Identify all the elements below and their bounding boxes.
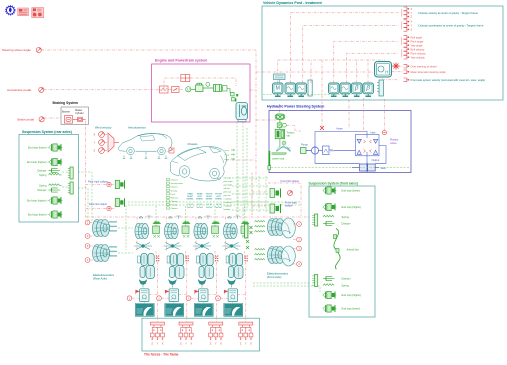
wire riser stub 3 [208, 294, 216, 296]
svg-text:Rear left caliper: Rear left caliper [89, 202, 107, 206]
component tire force tree 4 [239, 322, 253, 340]
wire caliper bus horizontal [86, 216, 310, 218]
component tire force tree 3 [209, 322, 223, 340]
svg-text:Spring: Spring [342, 284, 350, 288]
wire vd front-axle route [383, 79, 399, 81]
wire riser top stub 4 [245, 251, 246, 258]
box tire forces [142, 318, 260, 351]
component road input 4 [228, 289, 237, 302]
svg-text:Chassis: Chassis [171, 180, 178, 182]
svg-text:M: M [276, 85, 280, 91]
vd port group bus bars [401, 9, 403, 17]
wire vd L-route 2 [303, 26, 399, 61]
svg-text:Chassis: Chassis [171, 201, 178, 203]
wire road link 1 [132, 297, 140, 299]
scope icons row vehicle dynamics [273, 83, 284, 97]
svg-text:Y: Y [185, 341, 187, 345]
svg-text:Over steering of wheel: Over steering of wheel [411, 64, 437, 68]
chassis output table left column [167, 179, 170, 181]
component rack bottom connector [268, 166, 271, 170]
box engine powertrain [152, 64, 251, 122]
component shaft block [222, 86, 228, 92]
wire front caliper frame top [268, 183, 301, 216]
component elastokinematics rear top [93, 220, 111, 237]
component road input 1 [140, 289, 149, 302]
component elastokinematics front bottom [268, 247, 286, 264]
svg-text:Damper: Damper [342, 222, 351, 226]
box vehicle dynamics post [262, 6, 503, 100]
svg-text:Cylinder: Cylinder [75, 112, 84, 115]
wire pump to bridge [334, 149, 356, 151]
wire vd L-route 4 [347, 53, 399, 60]
svg-text:WHEEL: WHEEL [215, 199, 223, 201]
svg-text:Gravity: Gravity [171, 189, 177, 192]
icon red-pattern [32, 8, 44, 18]
svg-text:X: X [94, 133, 96, 137]
wire caliper feed left [86, 208, 107, 210]
svg-text:bar: bar [287, 134, 291, 137]
wire vd to oversteer [392, 65, 403, 67]
svg-text:Chassis: Chassis [171, 208, 178, 210]
component engine block [191, 83, 203, 91]
svg-text:x velocity: x velocity [224, 198, 232, 201]
svg-text:cm z: cm z [225, 159, 230, 161]
wire green wheels top2 [128, 204, 300, 206]
component wheel assembly 2 [169, 216, 181, 219]
svg-text:power rack: power rack [272, 157, 284, 160]
component rear fan connector 2 [68, 182, 73, 194]
svg-text:Output: Output [372, 158, 380, 162]
port front axle system [404, 78, 410, 82]
component jack [352, 163, 379, 173]
svg-text:1/3 1/2: 1/3 1/2 [187, 204, 193, 206]
svg-text:pitch angle: pitch angle [224, 180, 233, 183]
svg-text:End stop (higher): End stop (higher) [342, 293, 362, 297]
icon red star [393, 63, 400, 70]
svg-text:End stop (higher): End stop (higher) [342, 205, 362, 209]
svg-text:Aerodynamics: Aerodynamics [128, 126, 146, 130]
svg-text:Vehicle Dynamics Post - treatm: Vehicle Dynamics Post - treatment [263, 1, 323, 5]
wire front caliper route2 [252, 205, 268, 207]
component engine ecu [160, 86, 169, 93]
component power rack [269, 151, 286, 170]
component hyd steering input [275, 114, 285, 123]
component tire force tree 2 [179, 322, 193, 340]
component front fan connector 2 [312, 275, 317, 287]
component rack crossing [276, 146, 291, 152]
component pressure valve [319, 146, 334, 155]
wire green engine down2 [242, 122, 244, 224]
wire riser top stub 1 [156, 251, 157, 258]
box braking system [61, 107, 89, 125]
svg-text:Roll angle: Roll angle [411, 35, 423, 39]
wire hyd green bottom [271, 167, 410, 169]
component engine green connector [235, 94, 238, 102]
component wheel assembly 1 [139, 216, 151, 219]
svg-text:Chassis: Chassis [188, 142, 199, 146]
component road input 3 [199, 289, 208, 302]
svg-text:WHEEL: WHEEL [187, 199, 195, 201]
wire accelerator dash-dot [44, 89, 159, 91]
svg-text:Cx(body velocity at center of: Cx(body velocity at center of gravity - … [418, 11, 478, 15]
wire riser stub 2 [179, 294, 187, 296]
component elastokinematics front top [268, 219, 286, 236]
wire wheel red riser 3 [215, 256, 217, 322]
wire vd feed from chassis [226, 159, 256, 161]
svg-text:caliper: caliper [285, 204, 293, 208]
wire vd L-route 1 [290, 13, 398, 60]
ports elastokinematics front [297, 222, 302, 227]
svg-text:Hose: Hose [337, 127, 344, 131]
svg-text:End stop (lower): End stop (lower) [28, 213, 47, 217]
wire rr caliper link [111, 184, 115, 186]
svg-text:REAR: REAR [187, 193, 193, 196]
svg-text:1/3 1/2: 1/3 1/2 [197, 204, 203, 206]
svg-text:X: X [250, 341, 252, 345]
component vd multiplexer 1 [308, 80, 312, 96]
svg-text:Y: Y [411, 11, 413, 15]
svg-text:yaw rate: yaw rate [224, 194, 231, 197]
component booster [64, 116, 77, 123]
wire green engine down [236, 122, 238, 218]
component rear fan connector 1 [68, 167, 73, 179]
wire hyd to caliper frame [251, 173, 253, 184]
wire green to front susp [253, 282, 309, 284]
svg-text:Brake pedal: Brake pedal [18, 117, 35, 121]
wire master-cyl down [85, 121, 87, 217]
wire front caliper route [252, 191, 268, 193]
svg-text:roll angle: roll angle [224, 177, 232, 180]
component U source [186, 87, 191, 92]
wire green elasto rear vertical [125, 205, 127, 250]
svg-text:Damper: Damper [342, 277, 351, 281]
svg-text:Antiroll bar: Antiroll bar [347, 248, 359, 252]
svg-text:Jack: Jack [381, 166, 387, 170]
green vertical feeds to wheel columns [155, 206, 157, 221]
svg-text:End stop (lower): End stop (lower) [342, 307, 361, 311]
svg-text:Front left caliper: Front left caliper [281, 179, 300, 183]
svg-text:X: X [162, 341, 164, 345]
component wind funnel [108, 133, 119, 152]
port steering wheel angle [36, 47, 41, 52]
wire rear susp internal [62, 171, 68, 173]
svg-text:Gravity: Gravity [171, 203, 177, 206]
wire hyd red markx [320, 126, 324, 130]
component elastokinematics rear bottom [93, 245, 111, 262]
elastokinematics front springs [255, 221, 265, 223]
icon red-table [18, 8, 29, 16]
svg-text:End stop (lower): End stop (lower) [28, 146, 47, 150]
svg-text:End stop (higher): End stop (higher) [27, 160, 47, 164]
svg-text:Roll rate: Roll rate [171, 196, 179, 199]
svg-text:Suspension System (front axles: Suspension System (front axles) [309, 182, 358, 186]
svg-text:(Front Axle): (Front Axle) [267, 275, 282, 279]
component engine map [181, 75, 190, 82]
svg-text:heading: heading [224, 209, 231, 211]
green signal grid right of chassis [232, 177, 268, 179]
svg-text:Booster: Booster [62, 110, 70, 113]
component pump green input [301, 148, 307, 154]
port front left caliper [287, 190, 292, 195]
wire steering to hydraulic [256, 119, 277, 121]
wire road link 4 [220, 297, 228, 299]
svg-text:X: X [411, 7, 413, 11]
wire wheel red riser 2 [186, 256, 188, 322]
wire steering-wheel-angle dash-dot [42, 50, 257, 183]
svg-text:Damper: Damper [37, 169, 46, 173]
wire green rear susp out2 [78, 188, 88, 221]
port rear left caliper [107, 206, 111, 210]
component pump circle [306, 147, 319, 154]
component torsion bar [275, 128, 284, 139]
sketch aerodynamics car [119, 133, 172, 154]
svg-text:β: β [354, 85, 359, 92]
svg-text:1/3 1/2: 1/3 1/2 [206, 204, 212, 206]
port rear right caliper [107, 182, 111, 186]
svg-text:Pitch: Pitch [171, 193, 175, 196]
port road 3 [186, 296, 191, 301]
component elasto front connector [245, 224, 253, 249]
component road input 2 [169, 289, 178, 302]
svg-text:Hydraulic Power Steering Syste: Hydraulic Power Steering System [267, 105, 324, 109]
wire green to front susp2 [253, 286, 320, 292]
svg-text:Yaw angle: Yaw angle [411, 43, 423, 47]
svg-text:Y: Y [157, 341, 159, 345]
aerodynamics under-marks [123, 156, 126, 159]
wire engine internal dash2 [190, 78, 236, 86]
box suspension rear [19, 135, 79, 223]
wire front caliper frame [251, 183, 253, 216]
svg-text:X: X [220, 341, 222, 345]
component hyd square-circle pair [277, 123, 286, 128]
svg-text:roll rate: roll rate [224, 187, 230, 190]
wire riser top stub 2 [186, 251, 187, 258]
svg-text:Cx(body acceleration at center: Cx(body acceleration at center of gravit… [418, 24, 484, 28]
component vd multiplexer 2 [377, 80, 383, 96]
wire caliper feed right [86, 184, 107, 186]
component hyd circle2 [280, 139, 286, 146]
svg-text:Mean kinematic steering angle: Mean kinematic steering angle [411, 70, 447, 74]
component inlet minus [382, 131, 386, 135]
wire engine internal dash [159, 78, 180, 90]
port road 1 [127, 296, 132, 301]
wire vd horizontal 11 [256, 71, 374, 73]
svg-text:Front axle system velocity (co: Front axle system velocity (corrected wi… [411, 78, 486, 82]
component front left caliper [270, 189, 281, 198]
wire engine exit right [250, 89, 256, 91]
svg-text:β: β [365, 85, 370, 92]
wire hyd red top3 [363, 98, 365, 130]
wire bridge to jack [366, 156, 368, 164]
wire steering hyd stub [279, 104, 281, 113]
port accelerator pedal [39, 87, 44, 92]
wire vd green baseline [263, 94, 352, 96]
svg-text:WHEEL: WHEEL [206, 199, 214, 201]
wire wheel red riser 4 [245, 256, 247, 322]
wire bridge right return [375, 146, 386, 164]
svg-text:Engine and Powertrain system: Engine and Powertrain system [155, 59, 207, 63]
component gearbox [203, 85, 222, 92]
svg-text:valve: valve [390, 141, 397, 145]
component differential [236, 103, 248, 122]
component master cylinder [78, 117, 86, 121]
port road 2 [157, 296, 162, 301]
svg-text:Damper: Damper [37, 188, 46, 192]
component rear right caliper [115, 180, 124, 188]
vd riser lines from scopes to bus [277, 60, 279, 83]
svg-text:pitch rate: pitch rate [224, 191, 232, 194]
wire elasto rear link2 [118, 252, 133, 254]
svg-text:Y: Y [245, 341, 247, 345]
port brake pedal [39, 117, 44, 122]
svg-text:Braking System: Braking System [53, 101, 79, 105]
box suspension front [309, 186, 375, 317]
wire wheel red riser 1 [156, 256, 158, 322]
port road 4 [216, 296, 221, 301]
svg-text:WHEEL: WHEEL [196, 199, 204, 201]
elastokinematics front knuckle lobes [282, 218, 296, 266]
svg-text:Pump: Pump [301, 143, 308, 147]
svg-text:Y: Y [215, 341, 217, 345]
wire rear susp internal2 [62, 186, 68, 188]
component front right caliper [270, 204, 281, 213]
wire vd to meankin [392, 71, 403, 73]
svg-text:End stop (higher): End stop (higher) [27, 199, 47, 203]
wire elasto rear link [118, 227, 133, 229]
wire hyd red inlet drop [383, 99, 385, 130]
component steering scope [375, 62, 392, 78]
box hydraulic power steering [269, 111, 411, 173]
component wheel assembly 3 [198, 216, 210, 219]
wire green chassis right [246, 128, 248, 210]
icon bridge red arrows [364, 140, 372, 153]
wire brake pedal to booster [44, 117, 61, 119]
svg-text:Yaw velocity: Yaw velocity [411, 55, 426, 59]
svg-text:Pitch velocity: Pitch velocity [411, 51, 427, 55]
svg-text:Wind velocity: Wind velocity [95, 126, 112, 130]
svg-text:y velocity: y velocity [224, 201, 232, 204]
component clutch circle [206, 82, 210, 86]
component aero sensor [169, 148, 174, 153]
wire pump return [315, 154, 360, 163]
component wheel assembly 4 [228, 216, 240, 219]
icon water-drop [6, 6, 16, 16]
wire hyd red top2 [348, 100, 350, 128]
output ports column vehicle dynamics [404, 7, 410, 11]
svg-text:Y: Y [411, 24, 413, 28]
wire hose line [315, 132, 367, 147]
wire road link 2 [161, 297, 169, 299]
svg-text:Gravity center: Gravity center [171, 182, 184, 185]
wire hyd sq to red [286, 125, 302, 131]
wire vd bus horizontal [278, 59, 385, 61]
component front fan connector 1 [312, 214, 317, 226]
wire engine internal dash3 [169, 89, 185, 91]
wire green rear susp out [78, 172, 92, 221]
wire vd L-route 3 [334, 41, 399, 60]
svg-text:(Rear Axle): (Rear Axle) [93, 277, 107, 281]
svg-text:Inlet: Inlet [371, 130, 376, 134]
wire riser stub 4 [238, 294, 246, 296]
ports elastokinematics rear [85, 220, 90, 225]
wire engine to differential [227, 89, 235, 101]
wire rl caliper link [111, 204, 115, 209]
svg-text:Roll velocity: Roll velocity [411, 47, 426, 51]
svg-text:Y: Y [94, 141, 96, 145]
svg-text:End stop (lower): End stop (lower) [342, 189, 361, 193]
component tire force tree 1 [150, 322, 164, 340]
svg-text:Spring: Spring [39, 184, 47, 188]
svg-text:z velocity: z velocity [224, 205, 232, 208]
svg-text:Spring: Spring [342, 215, 350, 219]
svg-text:Suspension System (rear axles): Suspension System (rear axles) [22, 130, 72, 134]
component engine throttle [172, 87, 180, 93]
svg-text:Accelerator pedal: Accelerator pedal [7, 88, 31, 92]
svg-text:1/3 1/2: 1/3 1/2 [216, 204, 222, 206]
svg-text:Master: Master [75, 109, 82, 112]
sketch chassis car [170, 147, 226, 182]
svg-text:Tire forces - Tire frame: Tire forces - Tire frame [144, 353, 179, 357]
svg-text:Steering wheel angle: Steering wheel angle [2, 48, 31, 52]
component rear left caliper [115, 198, 124, 206]
svg-text:REAR: REAR [197, 193, 203, 196]
wire hyd red top [321, 60, 323, 128]
svg-text:X: X [411, 20, 413, 24]
component steering display [274, 74, 286, 83]
component antiroll bar [334, 229, 341, 270]
svg-text:Pitch angle: Pitch angle [411, 39, 424, 43]
svg-text:Chassis: Chassis [171, 187, 178, 189]
wire road link 3 [191, 297, 199, 299]
component rotary valve bridge [355, 135, 379, 156]
svg-text:yaw angle: yaw angle [224, 185, 233, 187]
wire riser stub 1 [149, 294, 157, 296]
svg-text:Spring: Spring [39, 173, 47, 177]
wire green wheels top [128, 201, 300, 203]
svg-text:Rear right caliper: Rear right caliper [88, 179, 108, 183]
wire riser top stub 3 [215, 251, 216, 258]
svg-text:X: X [190, 341, 192, 345]
